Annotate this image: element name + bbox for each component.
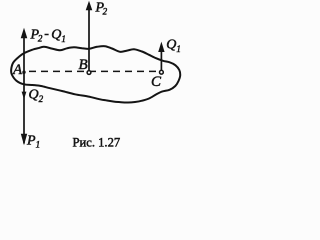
arrowhead up at B (force P2) xyxy=(86,1,93,10)
arrowhead down P1 xyxy=(21,134,27,146)
svg-text:A: A xyxy=(12,62,23,78)
wire: vertical line through A xyxy=(23,31,25,144)
svg-text:B: B xyxy=(79,57,88,73)
arrowhead up at C (force Q1) xyxy=(158,42,164,52)
arrowhead down Q2 xyxy=(22,92,27,100)
svg-text:Рис. 1.27: Рис. 1.27 xyxy=(73,135,121,149)
svg-text:C: C xyxy=(151,74,162,90)
node B circle xyxy=(87,71,91,75)
dashed line A-B-C xyxy=(29,70,158,72)
svg-text:-: - xyxy=(44,27,49,42)
body outline (rigid body blob) xyxy=(11,46,180,102)
wire: vertical line at B xyxy=(88,9,90,71)
arrowhead up at A (force P2-Q1) xyxy=(21,28,28,39)
node C circle xyxy=(160,70,164,74)
node A dot xyxy=(22,71,25,74)
wire: vertical line at C xyxy=(160,45,162,70)
